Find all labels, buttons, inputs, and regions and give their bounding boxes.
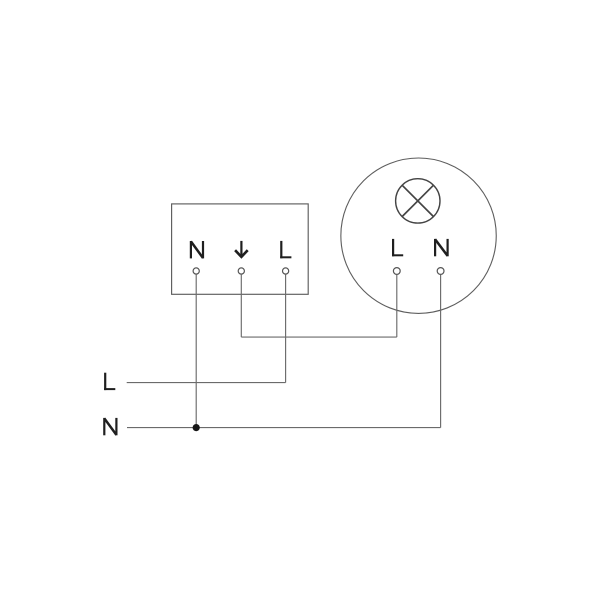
terminal pin L (sensor) xyxy=(283,268,289,274)
label L (lamp L terminal) xyxy=(392,239,403,256)
junction dot on N net xyxy=(193,424,200,431)
terminal pin arrow (sensor) xyxy=(238,268,244,274)
net label L xyxy=(104,373,115,390)
terminal pin L (lamp) xyxy=(393,268,400,275)
wire: sensor L terminal down to L net xyxy=(285,274,287,382)
arrow symbol (sensor switched-output terminal) xyxy=(235,241,248,257)
lamp symbol E1 xyxy=(396,179,440,223)
wire: sensor arrow terminal down xyxy=(240,274,242,337)
wire: N net horizontal xyxy=(127,427,441,429)
wire: riser up to lamp N terminal xyxy=(440,275,442,428)
wire: riser up to lamp L terminal xyxy=(396,275,398,338)
wire: horizontal run arrow-to-lamp-L xyxy=(241,336,396,338)
label L (sensor L terminal) xyxy=(280,241,291,258)
label N (sensor N terminal) xyxy=(191,241,203,258)
terminal pin N (lamp) xyxy=(437,268,444,275)
label N (lamp N terminal) xyxy=(435,239,448,256)
wire: sensor N terminal down to N net xyxy=(195,274,197,427)
net label N xyxy=(104,418,116,435)
wire: L net horizontal xyxy=(127,382,286,384)
terminal pin N (sensor) xyxy=(193,268,199,274)
luminaire enclosure circle xyxy=(341,158,496,313)
sensor box U1 xyxy=(172,204,309,294)
